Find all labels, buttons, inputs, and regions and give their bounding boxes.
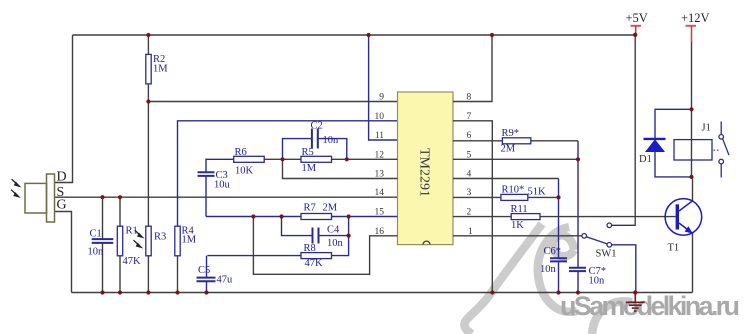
svg-text:R9*: R9*	[502, 128, 520, 139]
junction R9/pin5/C7 node	[576, 157, 580, 161]
wire pin 15 run with R7 in series	[206, 216, 398, 218]
svg-text:SW1: SW1	[596, 249, 617, 260]
svg-text:R10*: R10*	[502, 185, 525, 196]
svg-text:C6*: C6*	[544, 246, 562, 257]
diode D1	[644, 138, 666, 140]
IC notch	[423, 241, 430, 244]
junction +12V to D1	[689, 107, 693, 111]
capacitor C2 10n parallel with R5	[283, 139, 347, 160]
svg-text:+5V: +5V	[626, 11, 648, 25]
svg-text:R11: R11	[511, 204, 528, 215]
svg-text:47K: 47K	[305, 258, 324, 269]
sensor IR receiver package	[25, 174, 55, 222]
watermark logo swirl	[464, 224, 632, 334]
resistor R6 10K	[234, 156, 265, 162]
wire pin 5 run	[453, 158, 578, 160]
capacitor C1 10n	[102, 197, 104, 292]
svg-text:C1: C1	[90, 229, 102, 240]
capacitor C4 10n parallel with R7	[282, 217, 349, 236]
junction SW1/ground symbol node	[633, 290, 637, 294]
svg-text:+12V: +12V	[681, 11, 710, 25]
svg-text:1M: 1M	[182, 235, 197, 246]
wire pin 10 to R4	[178, 121, 398, 226]
junction +5V tap on rail	[633, 33, 637, 37]
junction R2 top on +5V rail	[146, 33, 150, 37]
junction R4 ground	[175, 290, 179, 294]
resistor R2 1M	[146, 54, 151, 84]
svg-text:10K: 10K	[235, 166, 254, 177]
svg-text:uSamodelkina.ru: uSamodelkina.ru	[560, 291, 740, 321]
junction C4/R8 right node	[347, 234, 351, 238]
light arrows into sensor	[11, 179, 19, 197]
wire pin 4 to C6 column	[453, 178, 559, 180]
svg-text:T1: T1	[668, 243, 680, 254]
resistor R1 47K photoresistor	[119, 197, 121, 292]
capacitor C5 47u	[206, 256, 208, 293]
svg-text:2M: 2M	[323, 203, 338, 214]
junction +5V rail to pin11 drop	[367, 33, 371, 37]
svg-text:14: 14	[375, 188, 385, 198]
junction C7 ground	[576, 290, 580, 294]
svg-text:47K: 47K	[123, 256, 142, 267]
resistor R9* 2M on pin 6	[453, 140, 578, 142]
svg-text:1M: 1M	[302, 163, 317, 174]
junction +5V rail to pin 8	[490, 33, 494, 37]
relay J1 coil	[674, 140, 712, 160]
junction R6/R5/C2/pin13 node	[280, 157, 284, 161]
resistor R10* 51K on pin 3	[453, 196, 559, 198]
wire bottom ground rail	[72, 292, 693, 294]
resistor R7 2M	[301, 214, 332, 220]
svg-text:R3: R3	[154, 232, 166, 243]
wire pin 1 to SW1 common	[453, 235, 582, 237]
svg-text:6: 6	[467, 131, 472, 141]
svg-text:TM2291: TM2291	[417, 148, 432, 197]
capacitor C6* 10n	[550, 258, 567, 261]
ground symbol	[626, 293, 645, 312]
wire top +5V rail	[55, 35, 693, 293]
svg-text:D1: D1	[639, 154, 652, 165]
svg-text:10n: 10n	[589, 276, 606, 287]
svg-text:51K: 51K	[528, 187, 547, 198]
resistor R4 1M	[175, 226, 180, 256]
svg-text:2M: 2M	[501, 144, 516, 155]
svg-text:R1: R1	[126, 226, 138, 237]
junction R10 right on C6 column	[556, 195, 560, 199]
junction R7/C4 right node	[347, 214, 351, 218]
svg-text:10n: 10n	[88, 247, 105, 258]
svg-text:J1: J1	[702, 123, 711, 134]
wire pin 8 to +5V rail	[453, 35, 492, 102]
wire sensor G down to ground rail	[55, 212, 72, 293]
relay contacts	[714, 149, 720, 151]
junction C1 on S net	[100, 195, 104, 199]
junction R1 ground	[118, 290, 122, 294]
svg-text:C5: C5	[198, 265, 210, 276]
junction D1/relay/collector node	[689, 175, 693, 179]
svg-text:R6: R6	[235, 147, 247, 158]
wire +5V to pin 11 vertical	[369, 35, 398, 140]
svg-text:10u: 10u	[214, 180, 231, 191]
wire R6 left lead to C3 column	[206, 159, 234, 172]
switch SW1	[582, 223, 612, 247]
svg-text:10n: 10n	[540, 264, 557, 275]
resistor R5 1M in series pin 12	[283, 158, 398, 160]
junction R5/C2 right node	[345, 157, 349, 161]
wire pin 7 down to ground rail	[453, 121, 492, 293]
svg-text:R7: R7	[304, 203, 316, 214]
junction R2 bottom pin 9 net	[146, 99, 150, 103]
node S: sensor S to IC pin 14	[55, 196, 398, 198]
junction R3 ground	[146, 290, 150, 294]
IC TM2291	[398, 92, 454, 245]
svg-text:D: D	[57, 170, 67, 185]
svg-text:C4: C4	[327, 225, 340, 236]
wire +12V node to D1 top	[655, 109, 692, 139]
junction C1 ground	[100, 290, 104, 294]
svg-text:R5: R5	[302, 147, 314, 158]
junction R1 on S net	[118, 195, 122, 199]
capacitor C3 10u	[198, 172, 215, 176]
svg-text:9: 9	[379, 93, 384, 103]
wire left vertical to sensor D	[55, 35, 73, 183]
node pin9 net: R2 bottom to IC pin 9	[148, 101, 397, 103]
resistor R11 1K on pin 2 base wire to T1	[453, 216, 676, 218]
wire pin 16 loop to pin 15 node	[253, 217, 397, 275]
svg-text:10n: 10n	[323, 135, 340, 146]
svg-text:1K: 1K	[511, 220, 524, 231]
svg-text:11: 11	[375, 131, 384, 141]
wire pin 13 to R5/R6 node	[283, 159, 398, 178]
resistor R3	[146, 226, 151, 256]
wire +5V down to SW1 upper throw	[634, 35, 637, 225]
capacitor C7* 10n column from pin5 node	[577, 159, 579, 292]
svg-text:G: G	[57, 198, 67, 213]
svg-text:10n: 10n	[327, 238, 344, 249]
svg-text:R8: R8	[304, 243, 316, 254]
transistor T1	[692, 177, 694, 201]
junction C4/R8 left node	[279, 214, 283, 218]
junction C6 ground	[556, 290, 560, 294]
svg-text:47u: 47u	[217, 275, 234, 286]
resistor R2 column with R3	[147, 35, 149, 293]
wire +12V down through relay to collector node	[691, 42, 693, 177]
junction pin7 ground	[490, 290, 494, 294]
junction C5 ground	[204, 290, 208, 294]
svg-text:1M: 1M	[153, 64, 168, 75]
svg-text:C2: C2	[311, 121, 323, 132]
resistor R8 47K parallel	[207, 236, 348, 256]
svg-text:10: 10	[375, 112, 385, 122]
junction pin16 tap on pin15 net	[251, 214, 255, 218]
